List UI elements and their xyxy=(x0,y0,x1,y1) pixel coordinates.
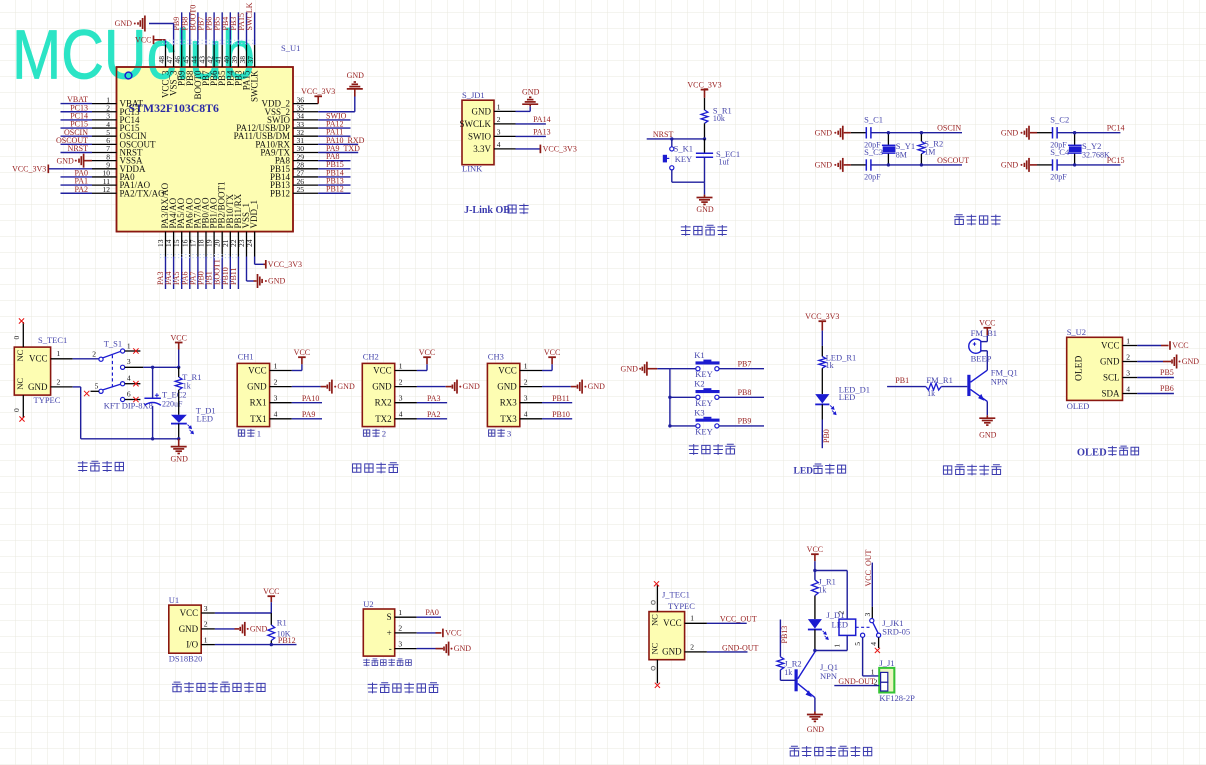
wire net PA10_RXD xyxy=(318,143,358,145)
U2 pin 2 + xyxy=(395,632,417,634)
MCU pin 31 PA10/RX xyxy=(293,143,318,145)
wire net NRST xyxy=(647,138,705,140)
connector S_JD1 body xyxy=(462,100,494,165)
wire GND run to bottom rail xyxy=(73,386,81,388)
MCU pin 18 PB0/AO xyxy=(205,232,207,257)
wire net PA3 xyxy=(165,257,167,290)
svg-text:T_EC2: T_EC2 xyxy=(162,390,187,400)
svg-text:GND: GND xyxy=(28,382,48,392)
wire net PB10 xyxy=(542,418,572,420)
wire resistor to LED_D1 xyxy=(821,368,823,394)
svg-text:LED: LED xyxy=(197,414,214,424)
CH2 pin 3 RX2 xyxy=(395,402,417,404)
MCU pin 10 PA0 xyxy=(92,176,117,178)
MCU pin 42 PB6 xyxy=(213,45,215,67)
svg-text:VCC: VCC xyxy=(498,366,517,376)
MCU pin 46 PB9 xyxy=(181,45,183,67)
wire LED_D1 to net PB0 xyxy=(821,404,823,419)
svg-text:SCL: SCL xyxy=(1103,373,1120,383)
CH3 pin 3 RX3 xyxy=(520,402,542,404)
wire net PA7 xyxy=(197,257,199,290)
svg-text:NPN: NPN xyxy=(820,671,837,681)
wire pin3 to VCC column xyxy=(215,612,271,614)
resistor R1 xyxy=(268,625,275,641)
svg-text:3.3V: 3.3V xyxy=(473,144,491,154)
ground at MCU pin 35 xyxy=(318,111,355,113)
svg-text:TX1: TX1 xyxy=(250,414,267,424)
svg-text:GND: GND xyxy=(497,382,517,392)
svg-text:VCC: VCC xyxy=(979,319,995,328)
svg-text:GND: GND xyxy=(337,382,355,391)
svg-text:RX1: RX1 xyxy=(250,398,267,408)
wire net PB5 xyxy=(221,12,223,45)
wire net PB6 xyxy=(1137,393,1174,395)
wire net OSCIN xyxy=(871,132,962,134)
S_U2 pin 4 SDA xyxy=(1123,393,1138,395)
U2 pin 1 S xyxy=(395,616,417,618)
svg-text:SWIO: SWIO xyxy=(468,131,491,141)
wire net GND-OUT to J_J1 pin 2 xyxy=(834,685,879,687)
MCU pin 39 PB3 xyxy=(237,45,239,67)
svg-text:S: S xyxy=(387,612,392,622)
svg-text:PA0: PA0 xyxy=(425,608,439,617)
junction at NRST and key xyxy=(670,137,673,140)
svg-text:2: 2 xyxy=(497,115,501,124)
wire net PB12 xyxy=(215,644,297,646)
wire contact 5 to J_J1 xyxy=(862,637,864,676)
svg-text:0: 0 xyxy=(12,408,21,412)
J_TEC1 pin 2 GND-OUT xyxy=(685,651,707,653)
MCU pin 9 VDDA xyxy=(92,168,117,170)
wire net PC14 xyxy=(61,119,93,121)
svg-text:2: 2 xyxy=(874,678,878,687)
svg-text:S_Y1: S_Y1 xyxy=(896,141,915,151)
wire CH1 pin1 to VCC xyxy=(292,370,302,372)
svg-text:OLED: OLED xyxy=(1067,401,1090,411)
wire gnd to cap S_C1 xyxy=(851,132,867,134)
power VCC_3V3 at S_JD1 pin4 xyxy=(539,145,541,154)
CH1 pin 4 TX1 xyxy=(270,418,292,420)
svg-text:GND: GND xyxy=(250,625,268,634)
svg-text:1: 1 xyxy=(871,667,875,676)
svg-text:1: 1 xyxy=(399,361,403,370)
svg-text:KF128-2P: KF128-2P xyxy=(879,693,915,703)
wire CH2 pin1 to VCC xyxy=(417,370,427,372)
button K1 xyxy=(696,367,700,371)
svg-text:I/O: I/O xyxy=(186,640,198,650)
module U2 body xyxy=(363,609,394,656)
svg-text:220uF: 220uF xyxy=(162,400,183,409)
connector J_J1 body xyxy=(879,668,894,693)
svg-text:PB0: PB0 xyxy=(822,429,831,443)
ground GND above S_JD1 xyxy=(529,104,531,106)
key bus vertical wire xyxy=(669,369,671,426)
svg-text:PA2: PA2 xyxy=(427,410,441,419)
power VCC buzzer xyxy=(984,327,992,329)
switch contact 6 xyxy=(121,397,125,401)
MCU pin 35 VSS_2 xyxy=(293,111,318,113)
svg-text:3: 3 xyxy=(524,394,528,403)
capacitor S_C1 xyxy=(865,127,867,138)
wire net OSCOUT xyxy=(61,143,93,145)
svg-text:1k: 1k xyxy=(183,381,191,390)
wire to resistor R1 xyxy=(270,613,272,625)
wire gnd to key bus xyxy=(657,368,670,370)
wire K3 to net PB9 xyxy=(719,425,764,427)
ground GND DS18B20 xyxy=(239,627,241,631)
svg-text:LED: LED xyxy=(832,619,849,629)
power VCC_3V3 reset xyxy=(701,89,709,91)
svg-text:VCC: VCC xyxy=(180,608,199,618)
svg-text:OLED: OLED xyxy=(1075,356,1085,381)
power VCC above CH3 xyxy=(548,356,556,358)
S_U2 pin 2 GND xyxy=(1123,361,1138,363)
relay link dashed xyxy=(856,626,871,628)
S_U2 pin 3 SCL xyxy=(1123,377,1138,379)
wire net PA0 xyxy=(61,176,93,178)
MCU pin 47 VSS_3 xyxy=(173,45,175,67)
wire net PA9_TXD xyxy=(318,152,358,154)
wire to resistor T_R1 xyxy=(178,367,180,377)
svg-text:S_C1: S_C1 xyxy=(864,115,883,125)
svg-text:PA13: PA13 xyxy=(533,128,551,137)
svg-text:-: - xyxy=(389,644,392,654)
wire CH3 pin2 to ground xyxy=(542,386,571,388)
svg-text:3: 3 xyxy=(398,639,402,648)
wire contact3 to VCC column xyxy=(143,366,178,368)
svg-text:TX2: TX2 xyxy=(375,414,392,424)
svg-text:VCC_OUT: VCC_OUT xyxy=(720,615,757,624)
wire net PC15 xyxy=(61,127,93,129)
wire capacitor to bottom xyxy=(704,157,706,182)
svg-text:GND: GND xyxy=(1182,357,1200,366)
connector CH3 body xyxy=(487,363,519,426)
title key circuit xyxy=(689,444,699,455)
svg-text:KEY: KEY xyxy=(695,398,712,408)
CH1 pin 3 RX1 xyxy=(270,402,292,404)
button S_K1 xyxy=(671,139,673,147)
svg-text:GND: GND xyxy=(522,88,540,97)
MCU pin 30 PA9/TX xyxy=(293,152,318,154)
svg-text:2: 2 xyxy=(524,377,528,386)
J_TEC1 pin 1 VCC_OUT xyxy=(685,622,707,624)
svg-text:3: 3 xyxy=(204,604,208,613)
svg-text:GND: GND xyxy=(247,382,267,392)
wire CH1 pin2 to ground xyxy=(292,386,321,388)
svg-text:GND: GND xyxy=(588,382,606,391)
crystal S_Y1 xyxy=(882,144,896,146)
power VCC_3V3 at MCU pin 24 VDD_1 xyxy=(254,257,256,265)
wire net PB11 xyxy=(542,402,572,404)
svg-text:VCC: VCC xyxy=(445,629,461,638)
wire net PA5 xyxy=(181,257,183,290)
svg-text:1: 1 xyxy=(524,361,528,370)
ground GND CH2 xyxy=(451,385,453,389)
ground at MCU pin 23 VSS_1 xyxy=(246,257,248,282)
CH1 pin 2 GND xyxy=(270,386,292,388)
MCU pin 48 VCC_3 xyxy=(165,45,167,67)
wire net PB13 xyxy=(318,184,350,186)
switch contact 4 xyxy=(121,382,125,386)
svg-text:3: 3 xyxy=(127,357,131,366)
title buzzer circuit xyxy=(943,466,951,474)
svg-text:VCC: VCC xyxy=(135,35,151,44)
svg-text:PB12: PB12 xyxy=(326,185,344,194)
wire VCC down xyxy=(178,350,180,368)
svg-text:KEY: KEY xyxy=(695,426,712,436)
wire LED to rail xyxy=(178,424,180,439)
S_JD1 pin 2 SWCLK xyxy=(494,123,516,125)
MCU pin 5 OSCIN xyxy=(92,135,117,137)
svg-text:1: 1 xyxy=(127,341,131,350)
ground GND OLED xyxy=(1171,359,1173,363)
svg-text:PA9: PA9 xyxy=(302,410,316,419)
svg-text:SRD-05: SRD-05 xyxy=(882,626,910,636)
resistor LED_R1 xyxy=(819,357,826,369)
svg-text:R1: R1 xyxy=(277,617,287,627)
connector CH1 body xyxy=(237,363,269,426)
wire node down to capacitor xyxy=(704,139,706,153)
relay contact 3 xyxy=(870,619,874,623)
svg-text:1: 1 xyxy=(497,103,501,112)
MCU pin 45 PB8 xyxy=(189,45,191,67)
MCU pin 13 PA3/RX/AO xyxy=(165,232,167,257)
power VCC power-circuit xyxy=(175,342,183,344)
wire node to J_R1 xyxy=(814,571,816,580)
svg-text:J_TEC1: J_TEC1 xyxy=(662,590,690,600)
svg-text:1: 1 xyxy=(57,349,61,358)
svg-text:GND: GND xyxy=(979,430,997,439)
svg-text:KFT DIP-8X8: KFT DIP-8X8 xyxy=(104,400,153,410)
CH2 pin 1 VCC xyxy=(395,370,417,372)
svg-text:4: 4 xyxy=(127,374,131,383)
wire pin1 to switch xyxy=(73,358,99,360)
MCU pin 27 PB14 xyxy=(293,176,318,178)
wire VCC down to node xyxy=(814,561,816,570)
switch contact 1 xyxy=(121,349,125,353)
svg-text:GND: GND xyxy=(815,128,833,137)
svg-text:S_C4: S_C4 xyxy=(1050,147,1070,157)
power VCC DS18B20 xyxy=(268,595,276,597)
CH2 pin 4 TX2 xyxy=(395,418,417,420)
svg-text:GND: GND xyxy=(472,106,492,116)
svg-text:VCC_3V3: VCC_3V3 xyxy=(687,80,721,89)
svg-text:2: 2 xyxy=(204,620,208,629)
MCU pin 25 PB12 xyxy=(293,192,318,194)
svg-text:25: 25 xyxy=(297,185,305,194)
button K2 xyxy=(696,395,700,399)
svg-text:K2: K2 xyxy=(694,379,704,389)
svg-text:TYPEC: TYPEC xyxy=(34,395,61,405)
wire net PA3 xyxy=(417,402,447,404)
svg-text:LINK: LINK xyxy=(462,163,483,173)
svg-text:GND: GND xyxy=(696,205,714,214)
wire CH3 pin1 to VCC xyxy=(542,370,552,372)
title relay control circuit xyxy=(789,746,799,756)
MCU pin 40 PB4 xyxy=(229,45,231,67)
svg-text:1: 1 xyxy=(1126,336,1130,345)
wire pin1 to VCC xyxy=(1137,345,1161,347)
svg-text:PA2/TX/AO: PA2/TX/AO xyxy=(120,188,166,198)
CH3 pin 2 GND xyxy=(520,386,542,388)
svg-text:NC: NC xyxy=(650,642,660,654)
svg-text:J_J1: J_J1 xyxy=(879,658,894,668)
MCU pin 4 PC15 xyxy=(92,127,117,129)
power VCC at MCU pin 48 xyxy=(154,39,166,41)
MCU pin 1 VBAT xyxy=(92,103,117,105)
wire K2 to net PB8 xyxy=(719,396,764,398)
svg-text:+: + xyxy=(387,628,392,638)
svg-text:6: 6 xyxy=(127,390,131,399)
MCU pin 14 PA4/AO xyxy=(173,232,175,257)
MCU pin 41 PB5 xyxy=(221,45,223,67)
MCU pin 32 PA11/USB/DM xyxy=(293,135,318,137)
wire net PA11 xyxy=(318,135,350,137)
wire net PB5 xyxy=(1137,377,1174,379)
relay coil J_JK1 xyxy=(839,619,856,635)
svg-text:SWCLK: SWCLK xyxy=(245,2,254,30)
comment serial-port label under CH1 xyxy=(238,430,244,436)
wire gnd to cap S_C2 xyxy=(1037,132,1053,134)
svg-text:FM_B1: FM_B1 xyxy=(971,328,997,338)
svg-text:K1: K1 xyxy=(694,350,704,360)
svg-text:2: 2 xyxy=(690,642,694,651)
wire net BOOT0 xyxy=(197,12,199,45)
MCU pin 24 VDD_1 xyxy=(254,232,256,257)
MCU pin 17 PA7/AO xyxy=(197,232,199,257)
wire pin2 to VCC xyxy=(417,632,436,634)
power VCC_3V3 LED circuit xyxy=(819,320,827,322)
capacitor S_C3 xyxy=(865,159,867,170)
switch lever 2-1 xyxy=(103,351,121,358)
MCU pin 44 BOOT0 xyxy=(197,45,199,67)
ground GND power-circuit xyxy=(178,439,180,447)
wire emitter to ground xyxy=(986,401,988,415)
LED LED_D1 xyxy=(815,394,829,403)
MCU pin 43 PB7 xyxy=(205,45,207,67)
MCU pin 34 SWIO xyxy=(293,119,318,121)
display S_U2 body xyxy=(1067,337,1123,400)
svg-text:VCC: VCC xyxy=(29,354,48,364)
wire pin2 to ground xyxy=(1137,361,1163,363)
MCU pin 20 PB2/BOOT1 xyxy=(221,232,223,257)
svg-text:PB11: PB11 xyxy=(229,268,238,286)
title soil moisture detect xyxy=(368,682,378,693)
svg-text:2: 2 xyxy=(274,377,278,386)
dotted mask marks bottom pins xyxy=(160,254,240,256)
svg-text:NC: NC xyxy=(650,614,660,626)
U1 pin 1 I/O xyxy=(201,644,215,646)
svg-text:K3: K3 xyxy=(694,407,704,417)
svg-text:PB7: PB7 xyxy=(738,359,752,368)
title reset circuit xyxy=(681,225,691,236)
svg-text:GND: GND xyxy=(179,624,199,634)
svg-text:PB11: PB11 xyxy=(552,394,570,403)
svg-text:OSCOUT: OSCOUT xyxy=(937,156,969,165)
MCU body border overlay xyxy=(117,67,294,232)
svg-text:TX3: TX3 xyxy=(500,414,517,424)
wire net PB11 xyxy=(237,257,239,290)
CH1 pin 1 VCC xyxy=(270,370,292,372)
svg-text:3: 3 xyxy=(497,128,501,137)
power VCC soil xyxy=(442,629,444,638)
svg-text:SWCLK: SWCLK xyxy=(460,119,492,129)
wire net PB7 xyxy=(205,12,207,45)
svg-text:PB12: PB12 xyxy=(278,636,296,645)
svg-text:S_C3: S_C3 xyxy=(864,147,883,157)
wire K1 to net PB7 xyxy=(719,368,764,370)
svg-text:4: 4 xyxy=(399,410,403,419)
svg-text:DS18B20: DS18B20 xyxy=(169,653,203,663)
MCU pin 33 PA12/USB/DP xyxy=(293,127,318,129)
title power circuit xyxy=(78,461,88,472)
U1 pin 2 GND xyxy=(201,628,215,630)
wire net PB6 xyxy=(213,12,215,45)
resistor FM_R1 xyxy=(926,383,941,390)
svg-text:VCC_3V3: VCC_3V3 xyxy=(12,164,46,173)
wire net PA2 xyxy=(417,418,447,420)
wire resistor to node xyxy=(704,123,706,139)
wire net PB14 xyxy=(318,176,350,178)
MCU pin 26 PB13 xyxy=(293,184,318,186)
capacitor S_C2 xyxy=(1052,127,1054,138)
button K3 xyxy=(696,424,700,428)
svg-text:1M: 1M xyxy=(924,148,935,157)
svg-text:PB13: PB13 xyxy=(780,626,789,644)
svg-text:VCC_3V3: VCC_3V3 xyxy=(301,87,335,96)
wire net VBAT xyxy=(61,103,93,105)
svg-text:LED: LED xyxy=(794,467,814,477)
svg-text:32.768K: 32.768K xyxy=(1082,151,1110,160)
wire collector up to buzzer xyxy=(986,354,988,370)
svg-text:GND: GND xyxy=(1100,357,1120,367)
power VCC_3V3 at MCU pin 9 VDDA xyxy=(48,168,92,170)
svg-text:8M: 8M xyxy=(896,151,907,160)
svg-text:VCC: VCC xyxy=(1172,341,1188,350)
wire VCC to resistor xyxy=(704,98,706,110)
wire net PA12 xyxy=(318,127,350,129)
MCU pin 3 PC14 xyxy=(92,119,117,121)
title crystal circuit xyxy=(954,215,964,225)
MCU pin 15 PA5/AO xyxy=(181,232,183,257)
wire net PB0 xyxy=(205,257,207,290)
svg-text:2: 2 xyxy=(1126,352,1130,361)
svg-text:1: 1 xyxy=(204,635,208,644)
wire gnd to cap S_C4 xyxy=(1037,164,1053,166)
ground GND CH1 xyxy=(326,385,328,389)
crystal S_Y2 xyxy=(1068,144,1082,146)
wire net PA2 xyxy=(61,192,93,194)
svg-text:U1: U1 xyxy=(169,595,179,605)
svg-text:U2: U2 xyxy=(363,599,373,609)
svg-text:VCC_OUT: VCC_OUT xyxy=(864,549,873,586)
svg-text:GND: GND xyxy=(115,19,133,28)
ground GND CH3 xyxy=(577,385,579,389)
wire net OSCOUT xyxy=(871,164,962,166)
svg-text:LED: LED xyxy=(839,392,856,402)
svg-text:VCC: VCC xyxy=(663,618,682,628)
wire J_R1 to LED J_D1 xyxy=(814,596,816,620)
svg-text:PB10: PB10 xyxy=(552,410,570,419)
capacitor S_EC1 xyxy=(696,152,713,154)
wire VCC_OUT to contact 3 xyxy=(871,563,873,607)
module U1 body xyxy=(169,605,201,653)
svg-text:S_Y2: S_Y2 xyxy=(1082,141,1101,151)
wire bus to K1 xyxy=(670,368,696,370)
svg-text:2: 2 xyxy=(836,611,845,615)
switch mechanical link dashed xyxy=(111,355,113,388)
svg-text:1k: 1k xyxy=(826,361,834,370)
